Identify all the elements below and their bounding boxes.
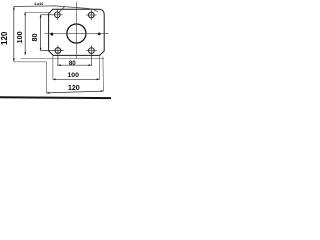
dimension line 80 bottom bbox=[58, 64, 91, 66]
center hole (big circle) bbox=[67, 24, 86, 43]
vertical centerline bbox=[75, 2, 77, 59]
svg-text:4-⌀10: 4-⌀10 bbox=[34, 2, 43, 6]
hole top-right bbox=[88, 12, 94, 18]
small hole mid-right bbox=[98, 33, 101, 36]
bottom border thick line bbox=[0, 96, 111, 99]
svg-text:120: 120 bbox=[0, 31, 9, 45]
svg-text:80: 80 bbox=[30, 34, 39, 42]
svg-text:120: 120 bbox=[68, 85, 80, 92]
dimension line 80 left bbox=[40, 15, 42, 51]
extension line 120 bottom-left corner path bbox=[14, 62, 47, 93]
small hole mid-left bbox=[50, 33, 53, 36]
hole bottom-right bbox=[89, 48, 95, 54]
svg-text:100: 100 bbox=[68, 72, 80, 79]
horizontal centerline bbox=[44, 33, 108, 35]
long extension line under plate bbox=[21, 58, 105, 60]
plate outline bbox=[49, 9, 105, 55]
extension line 120 bottom right bbox=[102, 57, 105, 92]
hole bottom-left centerlines bbox=[41, 50, 64, 52]
svg-text:80: 80 bbox=[69, 60, 76, 67]
hole top-left bbox=[54, 12, 60, 18]
extension line 100 left top bbox=[25, 12, 49, 14]
extension lines 100 bottom bbox=[52, 56, 54, 80]
dimension line 120 bottom bbox=[47, 91, 104, 93]
dimension line 100 bottom bbox=[53, 78, 100, 80]
dimension line 120 left bbox=[13, 7, 15, 62]
hole top-right centerlines bbox=[86, 14, 97, 16]
dimension line 100 left bbox=[24, 12, 26, 55]
hole top-left centerlines bbox=[41, 14, 63, 16]
leader line top bbox=[14, 6, 98, 12]
hole bottom-left bbox=[55, 48, 61, 54]
svg-text:100: 100 bbox=[15, 31, 24, 43]
leader from top-left hole bbox=[58, 7, 64, 14]
hole bottom-right centerlines bbox=[86, 50, 97, 52]
